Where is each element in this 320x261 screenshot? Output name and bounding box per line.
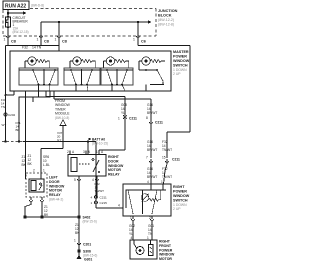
svg-text:15: 15 (162, 156, 166, 160)
svg-text:1: 1 (147, 236, 149, 240)
svg-text:(8W-12-8): (8W-12-8) (158, 23, 174, 27)
svg-text:(8W-12-2): (8W-12-2) (158, 18, 174, 22)
svg-text:C211: C211 (129, 117, 137, 121)
svg-text:MOTOR: MOTOR (49, 189, 62, 193)
svg-text:2: 2 (149, 216, 151, 220)
svg-text:1: 1 (118, 117, 120, 121)
svg-text:TN/WT: TN/WT (95, 189, 105, 193)
svg-text:G301: G301 (84, 258, 92, 261)
svg-text:MASTER: MASTER (173, 50, 189, 54)
svg-text:C202: C202 (8, 113, 16, 117)
svg-text:SWITCH: SWITCH (173, 64, 188, 68)
svg-text:TN/WT: TN/WT (162, 175, 172, 179)
svg-text:WINDOW: WINDOW (49, 184, 65, 188)
svg-text:(8W-10-15): (8W-10-15) (92, 142, 108, 146)
svg-text:RUN A22: RUN A22 (5, 4, 26, 10)
svg-text:14 TN: 14 TN (32, 46, 42, 50)
svg-text:SWITCH: SWITCH (173, 199, 188, 203)
svg-text:2 UP: 2 UP (173, 72, 181, 76)
svg-text:FRONT: FRONT (159, 244, 172, 248)
svg-text:BR/WT: BR/WT (147, 175, 157, 179)
svg-text:BLOCK: BLOCK (158, 14, 172, 18)
svg-text:2: 2 (33, 169, 35, 173)
svg-text:C8: C8 (62, 40, 67, 44)
svg-text:(8W-44-2): (8W-44-2) (49, 198, 63, 202)
svg-text:3: 3 (83, 150, 85, 154)
svg-text:5: 5 (74, 178, 76, 182)
svg-text:WINDOW: WINDOW (173, 194, 190, 198)
svg-text:2 UP: 2 UP (173, 207, 181, 211)
svg-text:MOTOR: MOTOR (108, 168, 121, 172)
svg-text:F32: F32 (22, 46, 28, 50)
svg-text:4: 4 (118, 204, 120, 208)
svg-text:C211: C211 (172, 158, 180, 162)
svg-text:POWER: POWER (173, 55, 187, 59)
svg-text:1: 1 (130, 216, 132, 220)
svg-text:MOTOR: MOTOR (159, 257, 172, 261)
svg-text:(8W-12-15): (8W-12-15) (13, 30, 29, 34)
svg-text:LEFT: LEFT (49, 176, 59, 180)
svg-text:YL: YL (121, 111, 125, 115)
svg-text:BR/WT: BR/WT (147, 111, 157, 115)
svg-text:C8: C8 (11, 40, 16, 44)
svg-text:C215: C215 (100, 201, 108, 205)
svg-text:4: 4 (131, 236, 133, 240)
svg-text:DOOR: DOOR (49, 180, 60, 184)
svg-text:7: 7 (146, 156, 148, 160)
svg-text:1: 1 (37, 38, 39, 42)
svg-text:(8W-D-8): (8W-D-8) (31, 4, 44, 8)
svg-text:POWER: POWER (173, 190, 187, 194)
svg-text:RIGHT: RIGHT (173, 185, 185, 189)
svg-text:C8: C8 (44, 40, 49, 44)
svg-text:RELAY: RELAY (108, 173, 120, 177)
svg-text:1: 1 (43, 169, 45, 173)
svg-text:RELAY: RELAY (49, 193, 61, 197)
svg-text:C211: C211 (155, 121, 163, 125)
svg-text:JUNCTION: JUNCTION (158, 9, 178, 13)
svg-text:WINDOW: WINDOW (173, 59, 190, 63)
svg-text:WINDOW: WINDOW (159, 253, 175, 257)
svg-text:BR/WT: BR/WT (147, 148, 157, 152)
svg-text:4: 4 (147, 180, 149, 184)
svg-text:1: 1 (55, 38, 57, 42)
svg-text:RIGHT: RIGHT (108, 155, 120, 159)
svg-text:TN: TN (1, 105, 5, 109)
svg-text:2: 2 (67, 150, 69, 154)
svg-text:C201: C201 (83, 243, 91, 247)
svg-text:C211: C211 (100, 196, 107, 200)
svg-text:(8W-15-6): (8W-15-6) (83, 220, 97, 224)
svg-text:1: 1 (133, 38, 135, 42)
svg-text:1: 1 (161, 180, 163, 184)
svg-text:BREAKER: BREAKER (13, 20, 29, 24)
svg-text:RIGHT: RIGHT (159, 240, 171, 244)
svg-text:WINDOW: WINDOW (108, 164, 124, 168)
svg-text:L-BL: L-BL (43, 163, 50, 167)
svg-text:C6: C6 (141, 40, 146, 44)
svg-text:POWER: POWER (159, 248, 173, 252)
svg-text:GY: GY (57, 138, 61, 142)
svg-text:1: 1 (74, 239, 76, 243)
svg-text:TN/WT: TN/WT (162, 148, 172, 152)
svg-text:8: 8 (146, 116, 148, 120)
svg-text:1: 1 (4, 38, 6, 42)
svg-text:WT: WT (2, 123, 7, 127)
svg-text:1: 1 (96, 150, 98, 154)
svg-text:(8W-10-8): (8W-10-8) (55, 116, 69, 120)
svg-text:DOOR: DOOR (108, 159, 119, 163)
